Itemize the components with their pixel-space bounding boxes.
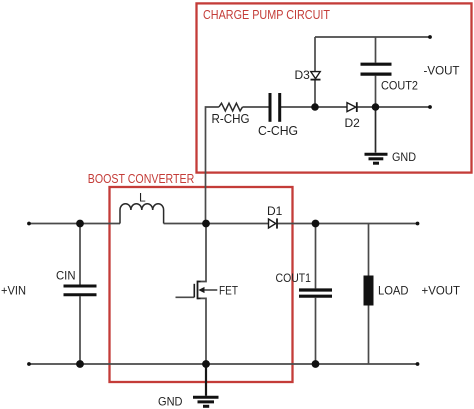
label D3 — [295, 68, 311, 82]
label FET — [219, 284, 239, 298]
label BOOST CONVERTER — [88, 172, 195, 186]
boost converter box — [110, 187, 293, 382]
wire: CIN top lead — [79, 224, 81, 285]
resistor R-CHG — [219, 103, 243, 111]
svg-text:+VIN: +VIN — [1, 284, 26, 298]
resistor LOAD — [364, 276, 374, 306]
wire: main ground stem — [205, 364, 207, 396]
svg-text:CHARGE PUMP CIRCUIT: CHARGE PUMP CIRCUIT — [203, 8, 330, 22]
charge pump circuit box — [197, 3, 472, 172]
terminal dot: +VIN top — [27, 222, 31, 226]
svg-text:L: L — [139, 191, 146, 205]
wire: FET gate lead — [176, 296, 195, 298]
wire: LOAD top lead — [368, 224, 370, 276]
label LOAD — [378, 284, 409, 298]
svg-text:GND: GND — [392, 150, 416, 164]
wire: FET source lead — [198, 298, 206, 364]
label COUT2 — [381, 79, 418, 93]
label CIN — [56, 269, 76, 283]
svg-text:BOOST CONVERTER: BOOST CONVERTER — [88, 172, 195, 186]
wire: charge pump top wire — [315, 36, 430, 38]
wire: top rail right segment (D1 cathode to output) — [277, 223, 418, 225]
label GND (charge pump) — [392, 150, 416, 164]
wire: bottom ground rail — [29, 363, 418, 365]
wire: D3 anode lead up to top wire — [314, 37, 316, 71]
svg-text:COUT1: COUT1 — [276, 271, 312, 285]
label +VIN — [1, 284, 26, 298]
wire: D3 cathode lead to node A — [314, 80, 316, 107]
label C-CHG — [258, 124, 298, 138]
terminal dot: +VOUT bottom — [416, 362, 420, 366]
label -VOUT — [424, 64, 461, 78]
wire: node B to charge pump ground stem — [375, 107, 377, 153]
svg-text:CIN: CIN — [56, 269, 76, 283]
wire: node A to D2 anode — [315, 106, 347, 108]
wire: CIN bottom lead — [79, 296, 81, 364]
svg-text:FET: FET — [219, 284, 239, 298]
svg-text:COUT2: COUT2 — [381, 79, 418, 93]
wire: D2 cathode to node B — [358, 106, 376, 108]
svg-text:GND: GND — [158, 395, 183, 409]
svg-text:D1: D1 — [267, 204, 283, 218]
wire: node B to -VOUT terminal — [376, 106, 431, 108]
diode D1 — [269, 218, 278, 228]
label +VOUT — [422, 284, 461, 298]
transistor FET (n-channel mosfet) — [194, 281, 217, 300]
wire: top rail left segment — [29, 223, 120, 225]
wire: COUT2 bottom lead — [375, 76, 377, 107]
junction: node A (C-CHG / D3 / D2) — [311, 103, 319, 111]
label COUT1 — [276, 271, 312, 285]
junction: COUT1 top node — [312, 220, 320, 228]
wire: COUT1 top lead — [315, 224, 317, 289]
junction: CIN top node — [76, 220, 84, 228]
wire: FET drain lead — [198, 224, 206, 282]
svg-text:LOAD: LOAD — [378, 284, 409, 298]
label D2 — [345, 116, 361, 130]
wire: COUT2 top lead — [375, 37, 377, 63]
capacitor COUT1 — [299, 290, 332, 296]
svg-text:D2: D2 — [345, 116, 361, 130]
inductor L — [120, 204, 164, 224]
svg-text:D3: D3 — [295, 68, 311, 82]
ground symbol (main) — [193, 397, 219, 406]
wire: COUT1 bottom lead — [315, 298, 317, 364]
label GND (main) — [158, 395, 183, 409]
capacitor CIN — [64, 286, 97, 295]
terminal dot: +VOUT top — [416, 222, 420, 226]
label L — [139, 191, 146, 205]
terminal dot: -VOUT top wire — [428, 35, 432, 39]
svg-text:+VOUT: +VOUT — [422, 284, 461, 298]
junction: CIN bottom node — [76, 360, 84, 368]
svg-text:-VOUT: -VOUT — [424, 64, 461, 78]
ground symbol (charge pump) — [365, 154, 388, 163]
label CHARGE PUMP CIRCUIT — [203, 8, 330, 22]
svg-text:R-CHG: R-CHG — [212, 112, 250, 126]
svg-text:C-CHG: C-CHG — [258, 124, 298, 138]
junction: COUT1 bottom node — [312, 360, 320, 368]
label R-CHG — [212, 112, 250, 126]
diode D3 — [311, 72, 321, 80]
terminal dot: -VOUT lower wire — [428, 105, 432, 109]
label D1 — [267, 204, 283, 218]
junction: FET source ground node — [202, 360, 210, 368]
wire: C-CHG to node A — [281, 106, 315, 108]
capacitor C-CHG — [270, 93, 280, 122]
diode D2 — [347, 102, 357, 112]
junction: node B (D2 / COUT2 / GND) — [372, 103, 380, 111]
wire: switch node riser to charge pump — [206, 107, 219, 224]
junction: switch node — [202, 220, 210, 228]
capacitor COUT2 — [361, 64, 392, 74]
wire: LOAD bottom lead — [368, 306, 370, 365]
terminal dot: +VIN bottom — [27, 362, 31, 366]
wire: R-CHG to C-CHG — [243, 106, 269, 108]
wire: top rail middle segment (switch node to D1 anode) — [164, 223, 269, 225]
